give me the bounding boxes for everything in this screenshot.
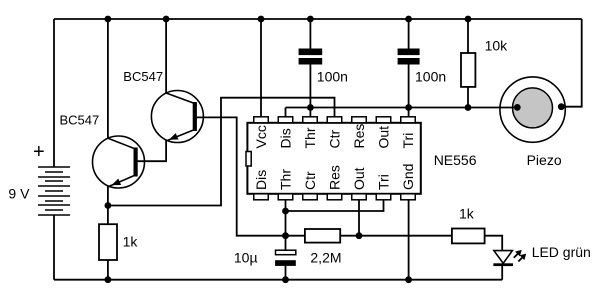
capacitor C1 100n [299, 49, 323, 65]
svg-text:Thr: Thr [302, 127, 318, 148]
svg-text:NE556: NE556 [434, 152, 477, 168]
svg-text:Tri: Tri [376, 174, 392, 190]
svg-text:Piezo: Piezo [527, 152, 562, 168]
wire battery plus lead [53, 19, 55, 167]
wire top rail [54, 18, 582, 20]
junction dots bottom rail [105, 276, 112, 283]
svg-text:Res: Res [351, 124, 367, 149]
svg-text:9 V: 9 V [8, 185, 30, 201]
piezo terminal left [514, 104, 521, 111]
svg-text:BC547: BC547 [123, 69, 163, 84]
svg-text:Out: Out [351, 167, 367, 190]
piezo P1 disc [513, 88, 553, 128]
battery BAT1 9V [38, 167, 70, 215]
svg-text:10µ: 10µ [234, 250, 258, 266]
capacitor C3 10u electrolytic [276, 250, 296, 255]
wire R3 top lead [467, 19, 469, 53]
wire Q1 base to Q2 emitter [138, 140, 167, 161]
IC U1 bottom pins [254, 194, 416, 200]
junction dots Thr bottom [282, 208, 289, 215]
IC U1 notch mark [246, 152, 251, 167]
wire Gnd riser [408, 200, 410, 280]
capacitor C2 100n [398, 49, 420, 65]
wire Out-bottom riser [358, 200, 360, 236]
svg-text:BC547: BC547 [60, 113, 100, 128]
resistor R1 1k [99, 224, 117, 260]
wire bottom ground rail [54, 279, 502, 281]
piezo P1 outer shell [500, 77, 565, 142]
wire piezo right lead [561, 19, 581, 107]
svg-text:1k: 1k [459, 206, 475, 222]
wire Q2 base to Thr-bottom node [197, 117, 286, 235]
svg-text:1k: 1k [123, 234, 139, 250]
wire C1 bottom lead to Thr pin [309, 65, 311, 118]
IC U1 bottom pin labels [253, 164, 416, 190]
transistor Q2 BC547 [151, 91, 203, 143]
svg-text:Out: Out [376, 126, 392, 149]
wire Thr-bottom riser to C3 [285, 200, 287, 250]
svg-text:Tri: Tri [400, 133, 416, 149]
svg-text:Dis: Dis [253, 170, 269, 190]
wire R4 left lead [286, 235, 305, 237]
wire Dis-top riser [285, 108, 287, 118]
resistor R4 2,2M [305, 229, 340, 243]
wire R3 bottom lead [467, 87, 469, 108]
LED D1 [493, 250, 526, 266]
wire Thr to Tri bottom link [286, 200, 384, 211]
wire battery minus lead [53, 215, 55, 280]
IC U1 top pins [254, 117, 416, 123]
wire R1 top lead [107, 206, 109, 225]
wire node mid net [286, 107, 518, 109]
svg-text:Gnd: Gnd [400, 164, 416, 190]
wire R1 bottom lead [107, 260, 109, 280]
wire C2 top lead [408, 19, 410, 49]
wire Q1 emitter lead [107, 187, 109, 206]
transistor Q1 BC547 [93, 136, 145, 188]
svg-text:Thr: Thr [278, 169, 294, 190]
svg-text:Ctr: Ctr [327, 130, 343, 149]
svg-text:Res: Res [327, 165, 343, 190]
wire C1 top lead [309, 19, 311, 49]
wire C3 bottom lead [285, 266, 287, 280]
svg-text:2,2M: 2,2M [310, 250, 341, 266]
svg-text:100n: 100n [415, 68, 446, 84]
resistor R3 10k [461, 53, 475, 87]
wire C2 bottom lead to Tri pin [408, 65, 410, 118]
IC U1 NE556 body [247, 123, 420, 194]
wire Out to R2 [359, 235, 452, 237]
svg-text:Dis: Dis [278, 128, 294, 148]
wire Q1 collector riser [107, 19, 109, 139]
wire Vcc riser [260, 19, 262, 118]
wire R2 to LED [485, 236, 503, 251]
piezo terminal right [558, 103, 565, 110]
svg-text:+: + [33, 141, 45, 163]
junction dot Out bottom [356, 232, 363, 239]
svg-text:10k: 10k [485, 38, 509, 54]
wire R4 right lead [340, 235, 359, 237]
svg-text:LED grün: LED grün [532, 244, 591, 260]
svg-text:Ctr: Ctr [302, 171, 318, 190]
junction dots top rail [105, 16, 112, 23]
svg-text:100n: 100n [317, 68, 348, 84]
wire LED cathode to rail [501, 266, 503, 280]
resistor R2 1k [452, 229, 485, 244]
IC U1 top pin labels [253, 124, 416, 149]
svg-text:Vcc: Vcc [253, 125, 269, 148]
junction dots mid net [307, 104, 314, 111]
wire emitter to Ctr pin [108, 98, 335, 206]
wire Q2 collector riser [165, 19, 167, 93]
junction dot emitter node [105, 202, 112, 209]
